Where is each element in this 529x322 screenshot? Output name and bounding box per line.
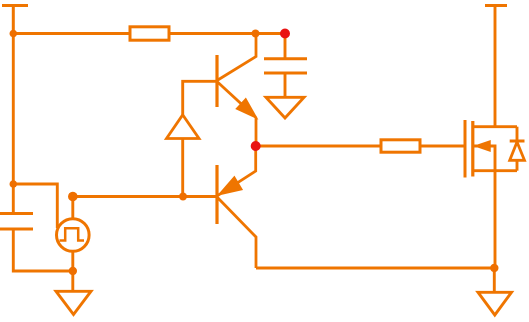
wire: down to left ground — [71, 271, 74, 291]
node: red net marker at end of top rail — [280, 29, 290, 39]
node: junction at diode D1 branch — [179, 193, 187, 201]
ground (below C1) — [266, 97, 304, 118]
node: V1 plus terminal dot — [68, 192, 78, 202]
wire: C2 bottom to bottom-left rail — [13, 229, 73, 271]
wire: MOSFET drain up to drain supply terminal — [494, 6, 497, 127]
wire: gate resistor to MOSFET gate — [420, 145, 465, 148]
ground (bottom-left) — [56, 291, 91, 314]
wire: V1 bottom terminal — [71, 251, 74, 271]
node: junction at supply rail / V+ column — [10, 30, 18, 38]
body diode of M1 — [510, 127, 525, 171]
MOSFET M1 (NMOS) — [465, 120, 517, 178]
capacitor C1 — [264, 59, 307, 73]
resistor R2 (gate resistor) — [381, 140, 420, 152]
node: bottom-left ground junction — [69, 267, 77, 275]
wire: from left rail junction to pulse source side — [13, 184, 57, 228]
wire: V1 top terminal — [71, 197, 74, 219]
wire: left vertical rail — [12, 34, 15, 214]
node: bottom-right junction — [490, 264, 498, 272]
pulse source V1 — [57, 219, 90, 252]
wire: capacitor C1 to ground — [284, 73, 287, 97]
capacitor C2 (left supply bulk cap) — [0, 214, 33, 230]
wire: top rail right segment — [169, 32, 285, 35]
wire: midpoint to gate resistor — [256, 145, 381, 148]
transistor Q2 (PNP, lower) — [217, 146, 256, 268]
node: red output node (push-pull midpoint) — [251, 141, 261, 151]
wire: top rail down to capacitor C1 — [284, 34, 287, 59]
resistor R1 — [130, 27, 169, 40]
transistor Q1 (NPN, upper) — [217, 34, 256, 147]
V+ supply rail terminal (top-left T bar) — [2, 6, 28, 34]
wire: top rail left segment — [13, 32, 130, 35]
node: junction on left rail — [10, 180, 18, 188]
diode D1 (speed-up, triangle) — [167, 81, 217, 196]
wire: base drive net from V1 to transistors — [73, 195, 216, 198]
ground (bottom-right) — [478, 292, 512, 315]
node: NPN collector junction on top rail — [252, 30, 260, 38]
wire: down to right ground — [493, 268, 496, 292]
wire: bottom rail (PNP collector to MOSFET source) — [256, 267, 494, 270]
drain supply rail terminal (top-right T bar) — [485, 4, 507, 7]
wire: MOSFET source down to bottom rail — [494, 171, 497, 268]
